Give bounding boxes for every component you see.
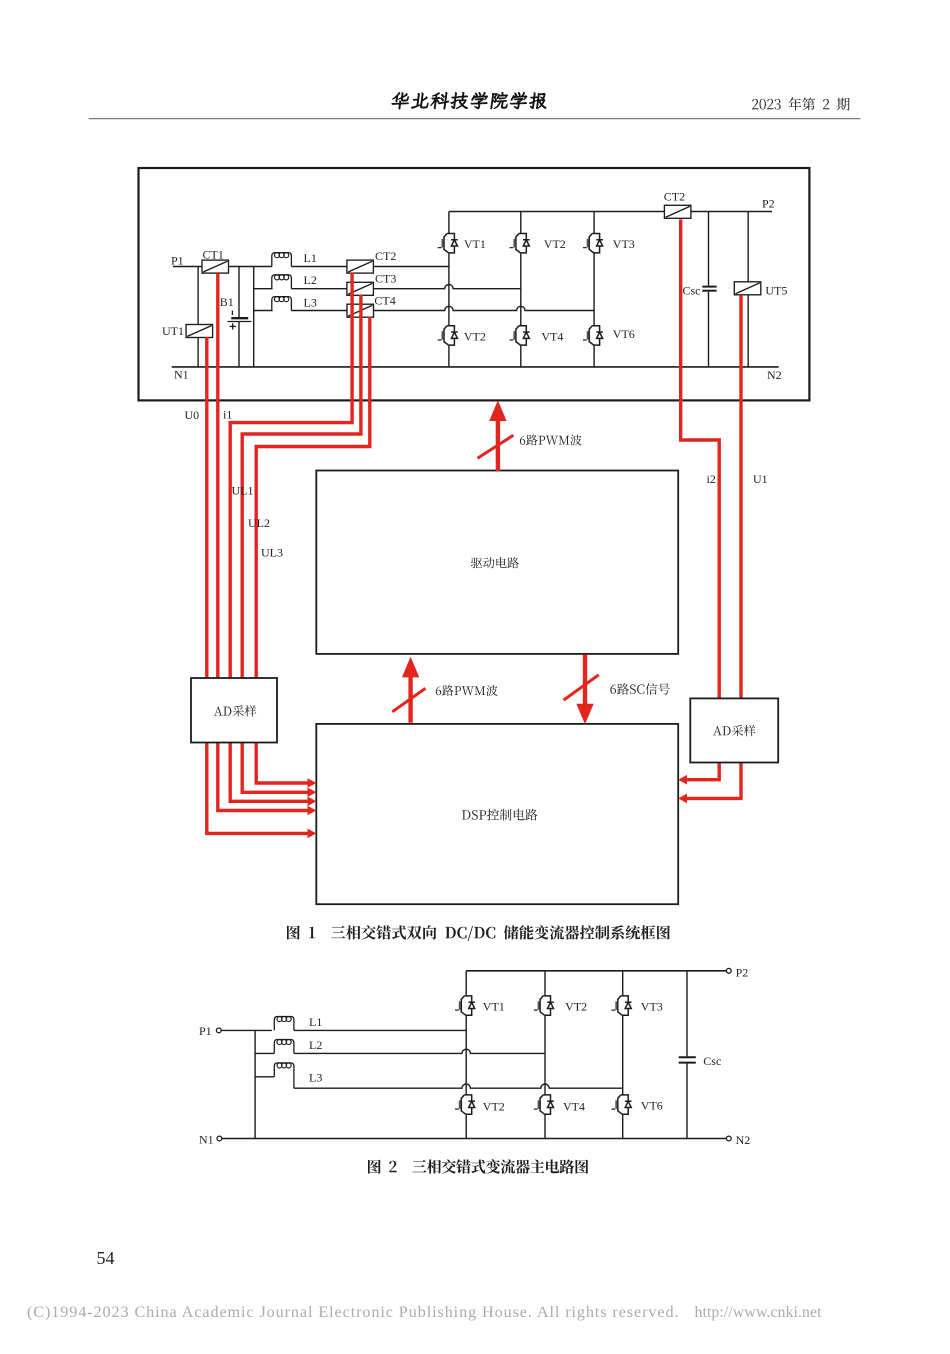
svg-text:i1: i1 <box>223 407 232 421</box>
svg-text:P1: P1 <box>171 254 184 268</box>
svg-text:CT2: CT2 <box>375 249 396 263</box>
red arrow: 6-ch PWM from drive circuit up to power stage <box>478 400 514 471</box>
svg-text:U0: U0 <box>185 408 200 422</box>
red arrowhead into DSP right at y=798.4 <box>678 794 687 804</box>
transistor VT1 (fig1 upper, with freewheel diode) <box>438 233 458 252</box>
svg-text:i2: i2 <box>707 472 716 486</box>
wire top bus to UT5 <box>747 212 749 282</box>
voltage transformer UT1 <box>186 325 213 338</box>
svg-text:VT2: VT2 <box>544 237 566 251</box>
inductor L3 (fig2) <box>274 1063 294 1088</box>
wire CT4 to bridge leg3 (hops over leg1, leg2) <box>374 306 594 310</box>
wire Csc to bottom bus (fig2) <box>686 1064 688 1139</box>
current transformer CT3 <box>347 282 374 295</box>
svg-text:54: 54 <box>97 1248 115 1268</box>
bus N1-N2 bottom rail <box>172 366 779 368</box>
bus CT2 to P2 end <box>691 211 772 213</box>
svg-text:P2: P2 <box>762 197 775 211</box>
svg-text:L1: L1 <box>309 1015 322 1029</box>
transistor VT1 (fig2 upper, with freewheel diode) <box>455 996 475 1015</box>
wire bridge leg3 <box>593 212 595 367</box>
red wire U1: UT5 sample down to AD and DSP <box>686 295 741 798</box>
red arrowhead into DSP left at y=801.3 <box>308 797 317 807</box>
red wire UL1: CT2 sample down-left-down to DSP <box>230 273 352 802</box>
svg-text:VT3: VT3 <box>613 237 635 251</box>
wire stub to L2 <box>254 288 273 290</box>
fig2: terminal P1 <box>216 1028 221 1033</box>
capacitor Csc (fig2) <box>679 1057 696 1062</box>
caption fig1 <box>287 925 670 941</box>
bus top rail (fig2) <box>466 970 726 972</box>
svg-text:N2: N2 <box>767 368 782 382</box>
svg-text:UL3: UL3 <box>261 546 283 560</box>
red arrowhead into DSP left at y=810.5 <box>308 806 317 816</box>
wire L1 to CT2 <box>291 266 347 268</box>
wire CT1 to node A (L1 input) <box>229 266 272 268</box>
label 6路PWM波 (top arrow) <box>520 434 582 445</box>
label 6路SC信号 <box>610 683 670 695</box>
text AD采样 left box <box>214 705 257 716</box>
svg-text:UL1: UL1 <box>232 483 254 497</box>
block 驱动电路 drive circuit box <box>316 471 678 654</box>
wire L2 to leg2 with hop (fig2) <box>294 1049 545 1053</box>
svg-text:L1: L1 <box>304 251 317 265</box>
red arrow: 6-ch SC signal from drive circuit down to DSP <box>564 655 599 725</box>
bus N1-N2 bottom rail (fig2) <box>222 1138 727 1140</box>
wire bridge leg2 <box>520 212 522 367</box>
wire L2 to CT3 <box>291 288 347 290</box>
transistor VT4 (fig1 lower, with freewheel diode) <box>510 326 530 345</box>
transistor VT3 (fig2 upper, with freewheel diode) <box>612 996 632 1015</box>
red arrowhead into DSP right at y=779.7 <box>678 775 687 785</box>
block AD采样 (right) box <box>690 698 778 762</box>
wire CT3 to bridge leg2 (hop over leg1) <box>374 285 521 289</box>
red wire i1: CT1 sample down to DSP <box>218 273 309 810</box>
battery B1 <box>227 311 251 330</box>
svg-text:VT6: VT6 <box>641 1099 663 1113</box>
red wire U0: UT1 sample down to DSP <box>207 337 309 834</box>
red arrow: 6-ch PWM from DSP up to drive circuit <box>392 657 425 723</box>
current transformer CT1 <box>202 260 229 273</box>
wire P1 to CT1 <box>173 266 202 268</box>
transistor VT2 (fig1 upper, with freewheel diode) <box>510 233 530 252</box>
fig2: terminal N2 <box>726 1136 731 1141</box>
svg-text:P2: P2 <box>736 965 749 979</box>
svg-text:N2: N2 <box>736 1133 751 1147</box>
current transformer CT2 <box>347 260 374 273</box>
wire battery B1 - down to N1 bus <box>238 322 240 367</box>
svg-text:CT2: CT2 <box>664 189 685 203</box>
svg-text:VT4: VT4 <box>541 329 563 343</box>
wire Csc to bottom bus <box>708 292 710 367</box>
inductor L2 <box>272 275 292 289</box>
svg-text:VT2: VT2 <box>565 999 587 1013</box>
wire bridge leg2 (fig2) <box>544 971 546 1139</box>
svg-text:VT4: VT4 <box>563 1100 585 1114</box>
svg-text:CT3: CT3 <box>375 271 396 285</box>
transistor VT6 (fig1 lower, with freewheel diode) <box>583 326 603 345</box>
svg-text:VT1: VT1 <box>483 999 505 1013</box>
wire L3 to leg3 with hops (fig2) <box>294 1084 623 1088</box>
svg-text:VT2: VT2 <box>464 329 486 343</box>
text 驱动电路 in drive box <box>471 557 519 568</box>
header rule <box>89 118 861 120</box>
svg-text:CT4: CT4 <box>374 294 395 308</box>
svg-text:P1: P1 <box>199 1024 212 1038</box>
fig1 outer frame box <box>139 168 810 400</box>
svg-text:http://www.cnki.net: http://www.cnki.net <box>695 1304 823 1321</box>
transistor VT2 (fig1 lower, with freewheel diode) <box>438 326 458 345</box>
current transformer CT4 <box>347 304 374 317</box>
wire L3 to CT4 <box>291 310 347 312</box>
wire bridge leg1 (fig2) <box>465 971 467 1139</box>
wire stub to L3 (fig2) <box>255 1076 274 1078</box>
wire bridge leg3 (fig2) <box>622 971 624 1139</box>
svg-text:VT3: VT3 <box>641 999 663 1013</box>
inductor L3 <box>272 297 292 311</box>
text AD采样 right box <box>713 725 756 736</box>
current transformer CT2 (DC side) <box>664 205 691 218</box>
fig2: terminal N1 <box>217 1136 222 1141</box>
red wire i2: CT2(DC side) sample down to AD and DSP <box>681 219 720 779</box>
transistor VT2 (fig2 upper, with freewheel diode) <box>534 996 554 1015</box>
svg-text:U1: U1 <box>753 472 768 486</box>
svg-text:(C)1994-2023 China Academic Jo: (C)1994-2023 China Academic Journal Elec… <box>27 1303 679 1321</box>
inductor L1 <box>272 253 292 267</box>
bus top rail legs to CT2 <box>449 211 665 213</box>
transistor VT3 (fig1 upper, with freewheel diode) <box>583 233 603 252</box>
svg-text:L3: L3 <box>309 1071 322 1085</box>
svg-text:VT1: VT1 <box>464 237 486 251</box>
svg-text:VT6: VT6 <box>613 327 635 341</box>
wire P1 node down to UT1 <box>197 267 199 325</box>
svg-text:N1: N1 <box>174 368 189 382</box>
wire stub to L3 <box>254 310 273 312</box>
wire CT2 to bridge leg1 <box>374 266 449 268</box>
wire top bus to Csc <box>708 212 710 286</box>
red arrowhead into DSP left at y=792.3 <box>308 788 317 798</box>
svg-text:B1: B1 <box>220 295 234 309</box>
transistor VT2 (fig2 lower, with freewheel diode) <box>455 1095 475 1114</box>
red arrowhead into DSP left at y=833.4 <box>308 829 317 839</box>
header: issue 2023年第2期 <box>752 97 850 110</box>
svg-text:Csc: Csc <box>703 1054 721 1068</box>
wire UT5 to bottom bus <box>747 295 749 367</box>
wire top bus to Csc (fig2) <box>686 971 688 1057</box>
capacitor Csc (fig1) <box>702 287 716 291</box>
svg-text:L3: L3 <box>304 296 317 310</box>
wire node A down to battery B1 + <box>238 267 240 318</box>
svg-text:L2: L2 <box>309 1038 322 1052</box>
svg-text:Csc: Csc <box>683 283 701 297</box>
svg-text:VT2: VT2 <box>483 1100 505 1114</box>
wire stub to L2 (fig2) <box>255 1052 274 1054</box>
fig2: terminal P2 <box>726 968 731 973</box>
red arrowhead into DSP left at y=783 <box>308 778 317 788</box>
svg-text:N1: N1 <box>199 1133 214 1147</box>
header: journal title 华北科技学院学报 <box>391 92 548 109</box>
wire UT1 to N1 bus <box>197 337 199 367</box>
wire L1 to leg1 (fig2) <box>294 1029 466 1031</box>
voltage transformer UT5 <box>734 282 761 295</box>
block AD采样 (left) box <box>191 678 277 743</box>
wire P1 node vertical feed (fig2) <box>254 1030 256 1138</box>
wire P1 to L1 (fig2) <box>221 1029 272 1031</box>
caption fig2 <box>368 1159 588 1173</box>
svg-text:UL2: UL2 <box>248 516 270 530</box>
transistor VT6 (fig2 lower, with freewheel diode) <box>612 1095 632 1114</box>
svg-text:CT1: CT1 <box>203 248 224 262</box>
svg-text:L2: L2 <box>304 273 317 287</box>
red wire UL3: CT4 sample to DSP <box>256 317 370 783</box>
text DSP控制电路 in DSP box <box>462 809 538 821</box>
red wire UL2: CT3 sample to DSP <box>242 295 361 792</box>
inductor L2 (fig2) <box>274 1040 294 1054</box>
inductor L1 (fig2) <box>274 1017 294 1031</box>
wire bridge leg1 <box>448 212 450 367</box>
wire node A vertical feed for L2/L3 <box>253 267 255 367</box>
svg-text:UT5: UT5 <box>765 284 787 298</box>
svg-text:UT1: UT1 <box>162 324 184 338</box>
transistor VT4 (fig2 lower, with freewheel diode) <box>534 1095 554 1114</box>
label 6路PWM波 (middle arrow) <box>436 685 498 696</box>
block DSP控制电路 DSP control box <box>316 724 678 904</box>
